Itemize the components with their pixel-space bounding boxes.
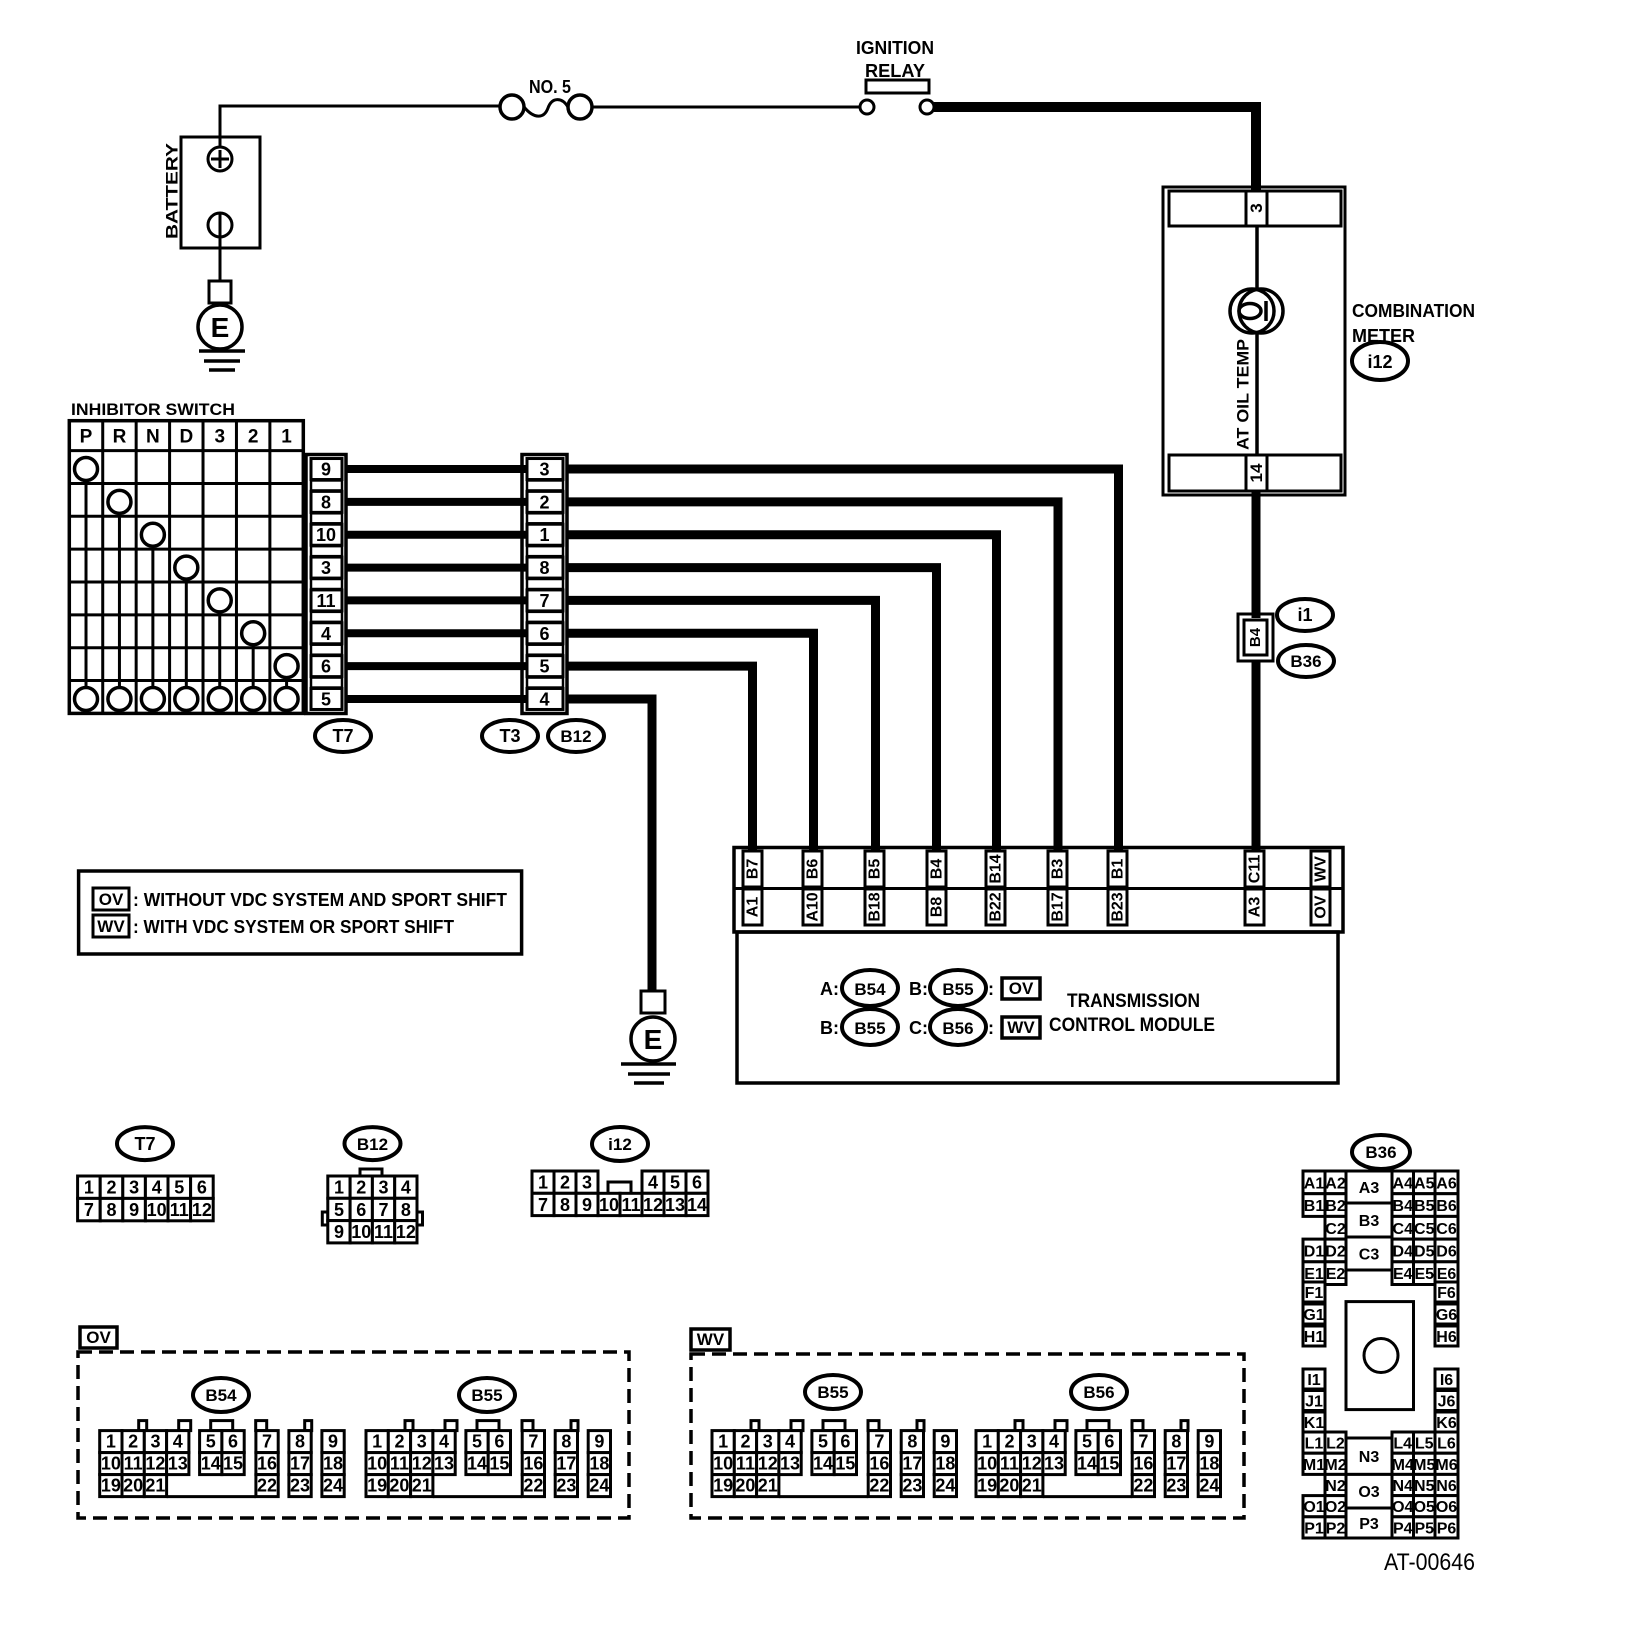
svg-text:12: 12 — [412, 1454, 432, 1474]
svg-text:A5: A5 — [1414, 1175, 1435, 1192]
svg-text:1: 1 — [539, 525, 549, 545]
svg-text:5: 5 — [1082, 1432, 1092, 1452]
svg-text:8: 8 — [401, 1200, 411, 1220]
svg-text:K1: K1 — [1304, 1415, 1325, 1432]
svg-text:B55: B55 — [817, 1383, 848, 1402]
svg-text:2: 2 — [356, 1178, 366, 1198]
svg-text:D6: D6 — [1436, 1243, 1457, 1260]
svg-text:4: 4 — [439, 1432, 449, 1452]
svg-text:J6: J6 — [1438, 1394, 1456, 1411]
svg-text:E5: E5 — [1414, 1266, 1434, 1283]
svg-text:B6: B6 — [1436, 1198, 1457, 1215]
svg-text:A3: A3 — [1247, 897, 1264, 918]
svg-text:WV: WV — [1007, 1018, 1035, 1037]
wire T3 pin 8 to TCM terminal B4 — [567, 568, 937, 852]
svg-text:1: 1 — [982, 1432, 992, 1452]
svg-text:A6: A6 — [1436, 1175, 1457, 1192]
svg-text:C4: C4 — [1393, 1221, 1414, 1238]
svg-text:WV: WV — [1313, 856, 1330, 882]
svg-text:12: 12 — [1022, 1454, 1042, 1474]
svg-text:A3: A3 — [1359, 1180, 1380, 1197]
svg-text:R: R — [113, 427, 127, 448]
label B36 (pinout) — [1352, 1135, 1410, 1169]
svg-text:M4: M4 — [1392, 1457, 1414, 1474]
svg-text:7: 7 — [379, 1200, 389, 1220]
svg-text:B55: B55 — [942, 980, 973, 999]
svg-text:P5: P5 — [1414, 1520, 1434, 1537]
svg-text:18: 18 — [323, 1454, 343, 1474]
svg-text:10: 10 — [367, 1454, 387, 1474]
svg-text:5: 5 — [321, 689, 331, 709]
svg-text:COMBINATION: COMBINATION — [1352, 301, 1475, 321]
svg-text:C6: C6 — [1436, 1221, 1457, 1238]
svg-text:P6: P6 — [1437, 1520, 1457, 1537]
svg-text:17: 17 — [902, 1454, 922, 1474]
svg-text:C5: C5 — [1414, 1221, 1435, 1238]
svg-text:11: 11 — [124, 1454, 143, 1474]
svg-text:4: 4 — [173, 1432, 183, 1452]
svg-text:22: 22 — [523, 1476, 543, 1496]
svg-text:8: 8 — [907, 1432, 917, 1452]
svg-text:B4: B4 — [1393, 1198, 1414, 1215]
svg-text:13: 13 — [665, 1195, 685, 1215]
svg-text:21: 21 — [1022, 1476, 1042, 1496]
svg-text:10: 10 — [101, 1454, 121, 1474]
svg-text:D2: D2 — [1325, 1243, 1346, 1260]
svg-text:E: E — [644, 1024, 663, 1055]
svg-text:i1: i1 — [1297, 605, 1312, 625]
label C: B56 — [909, 1009, 986, 1045]
svg-text:4: 4 — [785, 1432, 795, 1452]
svg-text:N3: N3 — [1359, 1449, 1380, 1466]
svg-text:3: 3 — [539, 460, 549, 480]
svg-text:24: 24 — [589, 1476, 609, 1496]
svg-text:1: 1 — [334, 1178, 344, 1198]
svg-text:NO. 5: NO. 5 — [529, 77, 571, 97]
svg-text:3: 3 — [379, 1178, 389, 1198]
svg-text:15: 15 — [223, 1454, 243, 1474]
TCM terminal B3/B17 — [1048, 851, 1067, 925]
svg-text:B6: B6 — [805, 859, 822, 880]
svg-text:6: 6 — [494, 1432, 504, 1452]
ground below battery — [198, 237, 245, 370]
svg-text:13: 13 — [434, 1454, 454, 1474]
wire ignition relay to combination meter pin 3 — [934, 107, 1256, 190]
svg-text:B8: B8 — [929, 897, 946, 918]
connector pinout T7 — [78, 1127, 214, 1221]
svg-text:16: 16 — [523, 1454, 543, 1474]
svg-text:3: 3 — [150, 1432, 160, 1452]
svg-text:K6: K6 — [1436, 1415, 1457, 1432]
svg-text:L4: L4 — [1393, 1436, 1412, 1453]
svg-text:P: P — [80, 427, 93, 448]
svg-text:8: 8 — [295, 1432, 305, 1452]
connector pinout B56 — [976, 1421, 1221, 1497]
svg-text:6: 6 — [356, 1200, 366, 1220]
svg-text:F1: F1 — [1305, 1285, 1324, 1302]
TCM terminal C11/A3 — [1245, 851, 1264, 925]
wire T3 pin 6 to TCM terminal B6 — [567, 633, 814, 852]
svg-text:T7: T7 — [332, 726, 353, 746]
svg-text:L2: L2 — [1326, 1436, 1345, 1453]
label T3 — [482, 720, 538, 752]
svg-text:A1: A1 — [745, 897, 762, 918]
svg-text:11: 11 — [316, 591, 335, 611]
wire T3 pin 7 to TCM terminal B5 — [567, 600, 876, 852]
wire meter pin 14 to connector B4 — [1252, 491, 1261, 618]
svg-text:17: 17 — [290, 1454, 310, 1474]
svg-text:B54: B54 — [205, 1386, 237, 1405]
svg-text:B7: B7 — [745, 859, 762, 880]
svg-text:O2: O2 — [1325, 1499, 1346, 1516]
svg-text:i12: i12 — [608, 1135, 632, 1154]
svg-text:5: 5 — [174, 1178, 184, 1198]
svg-text:B5: B5 — [1414, 1198, 1435, 1215]
svg-text:12: 12 — [758, 1454, 778, 1474]
svg-text:11: 11 — [621, 1195, 640, 1215]
svg-text:i12: i12 — [1367, 352, 1392, 372]
svg-text:B4: B4 — [929, 859, 946, 880]
svg-text:A4: A4 — [1393, 1175, 1414, 1192]
svg-text:7: 7 — [528, 1432, 538, 1452]
svg-text:TRANSMISSION: TRANSMISSION — [1067, 991, 1200, 1012]
svg-text:3: 3 — [214, 427, 225, 448]
svg-text:B4: B4 — [1247, 627, 1264, 647]
fuse NO. 5 — [500, 77, 592, 119]
connector strip T7 — [306, 455, 346, 714]
svg-text:6: 6 — [539, 624, 549, 644]
svg-text:B1: B1 — [1110, 859, 1127, 880]
svg-text:H6: H6 — [1436, 1329, 1457, 1346]
svg-text:23: 23 — [1166, 1476, 1186, 1496]
svg-text:8: 8 — [1171, 1432, 1181, 1452]
svg-text:OV: OV — [1009, 979, 1034, 998]
svg-text:20: 20 — [389, 1476, 409, 1496]
svg-text:C2: C2 — [1325, 1221, 1346, 1238]
svg-text:B5: B5 — [867, 859, 884, 880]
svg-text:9: 9 — [594, 1432, 604, 1452]
svg-text:14: 14 — [813, 1454, 833, 1474]
svg-text:5: 5 — [539, 657, 549, 677]
svg-text:6: 6 — [197, 1178, 207, 1198]
label B36 (inline) — [1278, 645, 1334, 677]
svg-text:OV: OV — [99, 890, 124, 909]
svg-text:1: 1 — [372, 1432, 382, 1452]
legend box OV/WV — [79, 871, 522, 954]
svg-text:M6: M6 — [1435, 1457, 1457, 1474]
svg-text:OV: OV — [1313, 895, 1330, 918]
svg-text:B36: B36 — [1365, 1143, 1396, 1162]
svg-text:B23: B23 — [1110, 892, 1127, 921]
svg-text:2: 2 — [248, 427, 259, 448]
svg-text:9: 9 — [582, 1195, 592, 1215]
connector strip T3/B12 — [522, 455, 567, 714]
svg-text:19: 19 — [367, 1476, 387, 1496]
svg-text:13: 13 — [1044, 1454, 1064, 1474]
svg-text:A1: A1 — [1304, 1175, 1325, 1192]
svg-text:11: 11 — [1000, 1454, 1019, 1474]
connector pinout B12 — [322, 1127, 422, 1243]
label T7 — [315, 720, 371, 752]
svg-text:A:: A: — [820, 979, 839, 999]
svg-text:14: 14 — [1247, 463, 1266, 482]
wire battery+ to fuse — [220, 106, 500, 147]
svg-text:13: 13 — [780, 1454, 800, 1474]
label i1 — [1277, 599, 1333, 631]
svg-text:3: 3 — [321, 558, 331, 578]
wires T7 to T3 connector — [346, 469, 527, 699]
svg-text:15: 15 — [1099, 1454, 1119, 1474]
svg-text:B55: B55 — [471, 1386, 502, 1405]
svg-text:17: 17 — [1166, 1454, 1186, 1474]
svg-text:E2: E2 — [1326, 1266, 1346, 1283]
svg-text:E4: E4 — [1393, 1266, 1413, 1283]
label i12 — [1352, 342, 1408, 380]
svg-text:24: 24 — [935, 1476, 955, 1496]
svg-text:B1: B1 — [1304, 1198, 1325, 1215]
svg-text:8: 8 — [560, 1195, 570, 1215]
OV section dashed box — [78, 1327, 629, 1518]
svg-text:B:: B: — [909, 979, 928, 999]
svg-text:B54: B54 — [854, 980, 886, 999]
svg-text:IGNITION: IGNITION — [856, 38, 934, 58]
svg-text:2: 2 — [539, 492, 549, 512]
svg-text:B14: B14 — [988, 854, 1005, 883]
svg-text:6: 6 — [228, 1432, 238, 1452]
svg-text:B12: B12 — [357, 1135, 388, 1154]
svg-text:O4: O4 — [1392, 1499, 1413, 1516]
svg-text:4: 4 — [401, 1178, 411, 1198]
TCM connector strip — [734, 848, 1343, 933]
svg-text:: WITHOUT VDC SYSTEM AND SPORT: : WITHOUT VDC SYSTEM AND SPORT SHIFT — [133, 890, 507, 910]
svg-text:P1: P1 — [1304, 1520, 1324, 1537]
svg-text:5: 5 — [472, 1432, 482, 1452]
svg-text:C:: C: — [909, 1018, 928, 1038]
svg-text:4: 4 — [539, 689, 549, 709]
svg-text:B12: B12 — [560, 727, 591, 746]
svg-text:3: 3 — [1027, 1432, 1037, 1452]
svg-text:T3: T3 — [499, 726, 520, 746]
svg-text:13: 13 — [168, 1454, 188, 1474]
svg-text:A10: A10 — [805, 892, 822, 921]
svg-text:24: 24 — [323, 1476, 343, 1496]
svg-text:B:: B: — [820, 1018, 839, 1038]
svg-text:8: 8 — [561, 1432, 571, 1452]
svg-text:5: 5 — [206, 1432, 216, 1452]
svg-text:20: 20 — [999, 1476, 1019, 1496]
label B54 (pinout) — [193, 1378, 249, 1412]
TCM terminal WV/OV — [1311, 851, 1330, 925]
svg-text:8: 8 — [539, 558, 549, 578]
svg-text:24: 24 — [1199, 1476, 1219, 1496]
svg-text:21: 21 — [758, 1476, 778, 1496]
connector pinout B55 (WV) — [712, 1421, 957, 1497]
label B12 (inline) — [548, 720, 604, 752]
svg-text:A2: A2 — [1325, 1175, 1346, 1192]
svg-text:I6: I6 — [1440, 1372, 1453, 1389]
svg-text:15: 15 — [835, 1454, 855, 1474]
svg-text:10: 10 — [147, 1200, 167, 1220]
svg-text:BATTERY: BATTERY — [163, 142, 182, 239]
svg-text:11: 11 — [736, 1454, 755, 1474]
svg-text:9: 9 — [328, 1432, 338, 1452]
svg-text:7: 7 — [84, 1200, 94, 1220]
svg-text:B3: B3 — [1050, 859, 1067, 880]
svg-text:D1: D1 — [1304, 1243, 1325, 1260]
wire connector B4 to TCM terminal C11 — [1252, 661, 1261, 852]
wire T3 pin 2 to TCM terminal B3 — [567, 502, 1058, 852]
svg-text:B56: B56 — [1083, 1383, 1114, 1402]
svg-text:N5: N5 — [1414, 1478, 1435, 1495]
svg-text:P2: P2 — [1326, 1520, 1346, 1537]
svg-text:16: 16 — [869, 1454, 889, 1474]
connector pinout B55 (OV) — [366, 1421, 611, 1497]
svg-text:N2: N2 — [1325, 1478, 1346, 1495]
svg-text:OV: OV — [86, 1328, 111, 1347]
svg-text:2: 2 — [394, 1432, 404, 1452]
ignition relay — [856, 38, 934, 114]
svg-text:20: 20 — [123, 1476, 143, 1496]
svg-text:7: 7 — [1138, 1432, 1148, 1452]
svg-text:9: 9 — [321, 460, 331, 480]
svg-text:1: 1 — [281, 427, 292, 448]
label B: B55 row1 — [909, 970, 986, 1006]
svg-text:7: 7 — [874, 1432, 884, 1452]
svg-text:14: 14 — [1077, 1454, 1097, 1474]
svg-text:18: 18 — [1199, 1454, 1219, 1474]
svg-text:3: 3 — [763, 1432, 773, 1452]
wire T3 pin 5 to TCM terminal B7 — [567, 666, 753, 852]
svg-text:6: 6 — [321, 657, 331, 677]
svg-text:M2: M2 — [1324, 1457, 1346, 1474]
label B: B55 row2 — [820, 1009, 898, 1045]
svg-text:7: 7 — [539, 591, 549, 611]
svg-text::: : — [988, 979, 994, 999]
svg-text:4: 4 — [152, 1178, 162, 1198]
label B55 (OV pinout) — [459, 1378, 515, 1412]
svg-text:P3: P3 — [1359, 1516, 1379, 1533]
svg-text:8: 8 — [106, 1200, 116, 1220]
svg-text:23: 23 — [902, 1476, 922, 1496]
svg-text:9: 9 — [334, 1222, 344, 1242]
svg-text:2: 2 — [128, 1432, 138, 1452]
svg-text:10: 10 — [977, 1454, 997, 1474]
TCM terminal B5/B18 — [865, 851, 884, 925]
svg-text:L5: L5 — [1415, 1436, 1434, 1453]
svg-text:M1: M1 — [1303, 1457, 1325, 1474]
svg-text:AT OIL TEMP: AT OIL TEMP — [1234, 339, 1253, 450]
svg-text:WV: WV — [697, 1330, 725, 1349]
svg-text:19: 19 — [977, 1476, 997, 1496]
svg-text:9: 9 — [1204, 1432, 1214, 1452]
svg-text:G6: G6 — [1436, 1307, 1457, 1324]
WV section dashed box — [691, 1329, 1244, 1518]
svg-text:C3: C3 — [1359, 1247, 1380, 1264]
battery — [163, 137, 261, 248]
svg-text:22: 22 — [869, 1476, 889, 1496]
svg-text:21: 21 — [145, 1476, 165, 1496]
TCM terminal B1/B23 — [1108, 851, 1127, 925]
TCM terminal B14/B22 — [986, 851, 1005, 925]
label B56 (pinout) — [1071, 1375, 1127, 1409]
svg-text:7: 7 — [538, 1195, 548, 1215]
svg-text:6: 6 — [692, 1173, 702, 1193]
svg-text:N: N — [146, 427, 160, 448]
connector pinout B54 — [100, 1421, 344, 1497]
svg-text:1: 1 — [538, 1173, 548, 1193]
svg-text:B2: B2 — [1325, 1198, 1346, 1215]
TCM terminal B4/B8 — [927, 851, 946, 925]
svg-text:18: 18 — [935, 1454, 955, 1474]
svg-text:B18: B18 — [867, 892, 884, 921]
svg-text:12: 12 — [643, 1195, 663, 1215]
svg-text:18: 18 — [589, 1454, 609, 1474]
label A: B54 — [820, 970, 898, 1006]
svg-text:F6: F6 — [1437, 1285, 1456, 1302]
svg-text:3: 3 — [1247, 203, 1266, 212]
svg-text:O6: O6 — [1436, 1499, 1457, 1516]
svg-text:B22: B22 — [988, 892, 1005, 921]
svg-text:CONTROL MODULE: CONTROL MODULE — [1049, 1015, 1215, 1036]
connector pinout B36 — [1303, 1171, 1458, 1538]
svg-text:3: 3 — [417, 1432, 427, 1452]
svg-text:B36: B36 — [1290, 652, 1321, 671]
svg-text:19: 19 — [713, 1476, 733, 1496]
svg-text:D: D — [179, 427, 193, 448]
svg-text:WV: WV — [97, 917, 125, 936]
svg-text:5: 5 — [334, 1200, 344, 1220]
svg-text:10: 10 — [316, 525, 336, 545]
svg-text:22: 22 — [1133, 1476, 1153, 1496]
svg-text:14: 14 — [687, 1195, 707, 1215]
transmission control module box — [737, 932, 1338, 1083]
svg-text:AT-00646: AT-00646 — [1384, 1549, 1475, 1576]
svg-text:O1: O1 — [1303, 1499, 1324, 1516]
svg-text:C11: C11 — [1247, 855, 1264, 884]
svg-text:12: 12 — [396, 1222, 416, 1242]
svg-text:17: 17 — [556, 1454, 576, 1474]
TCM terminal B6/A10 — [803, 851, 822, 925]
svg-text:2: 2 — [1004, 1432, 1014, 1452]
svg-text:20: 20 — [735, 1476, 755, 1496]
svg-text:D4: D4 — [1393, 1243, 1414, 1260]
svg-text:J1: J1 — [1305, 1394, 1323, 1411]
wire fuse to ignition relay — [592, 106, 860, 109]
svg-text:INHIBITOR SWITCH: INHIBITOR SWITCH — [71, 400, 235, 419]
svg-text::: : — [988, 1018, 994, 1038]
svg-text:16: 16 — [1133, 1454, 1153, 1474]
svg-text:G1: G1 — [1303, 1307, 1324, 1324]
svg-text:P4: P4 — [1393, 1520, 1413, 1537]
label OV box row1 — [988, 978, 1040, 999]
svg-text:4: 4 — [321, 624, 331, 644]
svg-text:RELAY: RELAY — [865, 61, 925, 81]
svg-text:8: 8 — [321, 492, 331, 512]
connector pinout i12 — [532, 1127, 708, 1216]
svg-text:O5: O5 — [1414, 1499, 1435, 1516]
svg-text:O3: O3 — [1358, 1484, 1379, 1501]
combination meter i12 — [1163, 187, 1475, 495]
svg-text:9: 9 — [940, 1432, 950, 1452]
svg-text:11: 11 — [374, 1222, 393, 1242]
svg-text:14: 14 — [201, 1454, 221, 1474]
svg-text:12: 12 — [192, 1200, 212, 1220]
svg-text:2: 2 — [106, 1178, 116, 1198]
wire T3 pin 4 to ground — [567, 699, 652, 991]
svg-text:B17: B17 — [1050, 892, 1067, 921]
svg-text:4: 4 — [1049, 1432, 1059, 1452]
svg-text:N6: N6 — [1436, 1478, 1457, 1495]
